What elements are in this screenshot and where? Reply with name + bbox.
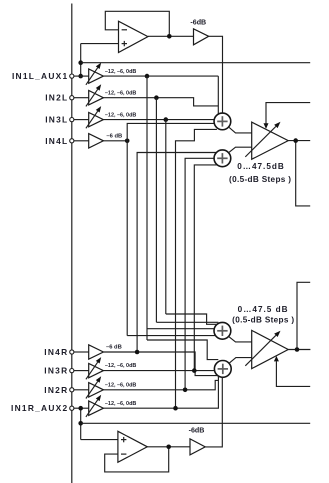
- svg-text:IN3R: IN3R: [44, 366, 68, 376]
- amplifier A5 IN4R -6dB: [74, 344, 122, 359]
- node IN2R pin: [44, 385, 74, 395]
- svg-text:IN4R: IN4R: [44, 347, 68, 357]
- junction dot IN4R: [135, 350, 140, 355]
- wire riser IN2R up into summer2: [185, 158, 214, 389]
- junction dot IN1L_AUX1 bypass tap: [78, 60, 83, 65]
- svg-text:–12, –6, 0dB: –12, –6, 0dB: [105, 69, 137, 75]
- junction dot IN2R: [183, 388, 188, 393]
- amplifier A8 IN1R_AUX2 -12,-6,0dB: [74, 395, 137, 417]
- node IN4R pin: [44, 347, 74, 357]
- amplifier A1 IN1L_AUX1 -12,-6,0dB: [74, 63, 137, 85]
- node IN3R pin: [44, 366, 74, 376]
- junction dot row4: [125, 139, 130, 144]
- wire riser row1 cross-feed down: [146, 76, 148, 340]
- summer 3 (left cross into right): [214, 322, 231, 339]
- svg-text:-6dB: -6dB: [190, 18, 206, 26]
- PGA U2 0...47.5dB left: [229, 122, 291, 184]
- wire summer3 output to PGA2: [229, 336, 252, 342]
- node IN2L pin: [45, 93, 74, 103]
- junction dot row1: [145, 74, 150, 79]
- junction dot IN3R: [192, 368, 197, 373]
- svg-text:–12, –6, 0dB: –12, –6, 0dB: [105, 401, 137, 407]
- wire riser IN4L cross-feed down: [126, 141, 128, 336]
- wire summer1 output to PGA: [229, 127, 252, 133]
- wire PGA1 gain control: [264, 103, 311, 129]
- svg-text:–6 dB: –6 dB: [106, 344, 122, 350]
- wire row1 output: [103, 76, 218, 114]
- node IN1L_AUX1 pin: [12, 71, 74, 81]
- wire row2 cross-feed jog into summer3: [166, 314, 217, 324]
- node IN4L pin: [45, 136, 74, 146]
- wire row2 output: [103, 98, 218, 106]
- junction dot AUX2 pin tap: [78, 406, 83, 411]
- wire riser IN1R_AUX2 up into summer1: [176, 129, 217, 408]
- chip boundary line: [71, 4, 73, 483]
- svg-text:–12, –6, 0dB: –12, –6, 0dB: [105, 112, 137, 118]
- junction dot U1 output: [167, 34, 172, 39]
- junction dot AUX2 row: [173, 406, 178, 411]
- svg-text:IN2L: IN2L: [45, 93, 68, 103]
- wire IN1L_AUX1 pin to buffer + input riser: [81, 44, 119, 77]
- svg-text:(0.5-dB Steps ): (0.5-dB Steps ): [232, 316, 294, 325]
- svg-text:–12, –6, 0dB: –12, –6, 0dB: [105, 90, 137, 96]
- summer 4 (right channel): [214, 361, 231, 378]
- wire row4 output: [103, 140, 127, 142]
- wire IN1R_AUX2 pin to buffer + input riser: [81, 408, 118, 439]
- wire AUX2 bypass to right edge: [81, 422, 311, 424]
- wire AUX2 row output into summer4 bottom: [103, 376, 218, 408]
- wire row3 cross-feed into summer3: [156, 321, 218, 323]
- wire IN4L cross-feed into summer3: [127, 335, 215, 337]
- amplifier A7 IN2R -12,-6,0dB: [74, 376, 137, 398]
- amplifier A3 IN3L -12,-6,0dB: [74, 106, 137, 128]
- summer 2 (right cross into left): [214, 150, 231, 167]
- svg-text:-6dB: -6dB: [189, 427, 205, 435]
- wire riser row3 cross-feed down: [165, 120, 167, 314]
- wire row1 cross-feed jog into summer4: [147, 340, 218, 360]
- svg-text:IN4L: IN4L: [45, 136, 68, 146]
- wire riser IN3R up into summer2: [194, 165, 217, 371]
- wire row1 cross-feed branch into summer3: [147, 328, 214, 330]
- wire IN1L_AUX1 bypass to right edge: [81, 62, 311, 64]
- wire PGA2 output: [288, 282, 310, 349]
- svg-text:IN1R_AUX2: IN1R_AUX2: [11, 403, 68, 413]
- svg-text:IN3L: IN3L: [45, 115, 68, 125]
- wire summer2 output to PGA: [229, 147, 252, 153]
- svg-text:IN1L_AUX1: IN1L_AUX1: [12, 71, 68, 81]
- wire IN4R output and jog into summer4: [103, 352, 217, 376]
- node IN1R_AUX2 pin: [11, 403, 74, 413]
- junction dot PGA1 output: [293, 138, 298, 143]
- wire PGA2 gain control: [274, 356, 310, 387]
- summer 1 (left channel): [214, 113, 231, 130]
- wire riser row2 cross-feed down: [155, 98, 157, 323]
- wire riser IN4R up into summer2: [137, 153, 216, 353]
- junction dot U4 output: [166, 445, 171, 450]
- svg-text:IN2R: IN2R: [44, 385, 68, 395]
- junction dot AUX2 bypass tap: [78, 421, 83, 426]
- wire -6dB output up to summer4: [205, 377, 222, 447]
- wire PGA1 output: [288, 141, 310, 206]
- svg-text:–12, –6, 0dB: –12, –6, 0dB: [105, 382, 137, 388]
- svg-text:0…47.5 dB: 0…47.5 dB: [238, 305, 289, 314]
- amplifier -6dB (bottom): [189, 427, 206, 455]
- junction dot row3: [164, 117, 169, 122]
- svg-text:–6 dB: –6 dB: [106, 133, 122, 139]
- node IN3L pin: [45, 115, 74, 125]
- wire U4 output: [147, 446, 190, 448]
- amplifier -6dB (top): [190, 18, 208, 45]
- wire IN4L branch up into summer1: [127, 123, 214, 140]
- amplifier A6 IN3R -12,-6,0dB: [74, 357, 137, 379]
- PGA U3 0...47.5dB right: [232, 305, 294, 368]
- wire U1 output: [148, 35, 194, 37]
- wire -6dB output down to summer 1: [209, 36, 223, 113]
- wire summer4 output to PGA2: [229, 358, 252, 364]
- junction dot IN1L_AUX1 row tap: [78, 74, 83, 79]
- wire U1 feedback loop: [105, 11, 169, 36]
- svg-text:0…47.5dB: 0…47.5dB: [237, 162, 285, 171]
- op-amp U1 (IN1L buffer): [119, 21, 148, 52]
- wire row3 output to summer1: [103, 119, 214, 121]
- amplifier A2 IN2L -12,-6,0dB: [74, 84, 137, 106]
- svg-text:(0.5-dB Steps ): (0.5-dB Steps ): [229, 175, 291, 184]
- wire IN2R output jog to summer4 bottom: [103, 380, 218, 389]
- wire IN3R output into summer4: [103, 370, 214, 372]
- junction dot row2: [154, 95, 159, 100]
- wire U4 feedback loop: [105, 447, 169, 472]
- junction dot PGA2 output: [295, 347, 300, 352]
- svg-text:–12, –6, 0dB: –12, –6, 0dB: [105, 363, 137, 369]
- op-amp U4 (IN1R buffer): [118, 431, 147, 462]
- amplifier A4 IN4L -6dB: [74, 133, 122, 148]
